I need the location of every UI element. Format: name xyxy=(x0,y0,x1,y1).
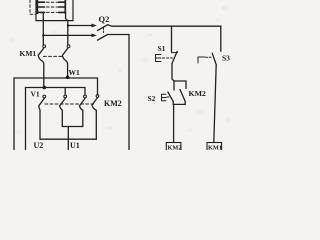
svg-text:U1: U1 xyxy=(70,141,80,150)
svg-text:KM2: KM2 xyxy=(189,89,206,98)
svg-text:V1: V1 xyxy=(31,90,40,99)
svg-text:KM1: KM1 xyxy=(20,49,37,58)
svg-text:S2: S2 xyxy=(148,94,156,103)
svg-text:KM2: KM2 xyxy=(168,145,182,151)
svg-text:U2: U2 xyxy=(34,141,44,150)
svg-text:KM2: KM2 xyxy=(104,99,122,108)
svg-text:S3: S3 xyxy=(222,54,230,63)
svg-text:S1: S1 xyxy=(158,44,166,53)
svg-text:Q2: Q2 xyxy=(99,14,110,24)
svg-text:W1: W1 xyxy=(69,68,81,77)
svg-text:KM1: KM1 xyxy=(208,145,222,151)
